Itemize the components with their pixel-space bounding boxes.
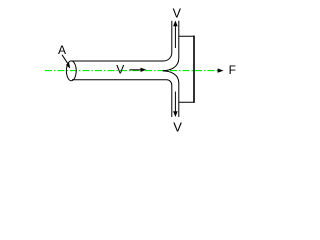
svg-text:V: V [173, 7, 182, 21]
wire F force arrowhead [218, 68, 224, 72]
centerline (green dash-dot axis) [45, 70, 218, 72]
svg-text:V: V [173, 119, 182, 134]
wire inner jet boundary lower branch [163, 71, 179, 117]
node flat plate [193, 36, 195, 103]
wire top connector to plate [179, 35, 195, 37]
wire A pointer arrow [62, 55, 68, 64]
svg-text:V: V [116, 63, 124, 77]
wire bottom connector to plate [179, 101, 195, 103]
wire nozzle bottom wall and lower outer jet wall [72, 80, 172, 117]
wire nozzle top wall and upper outer jet wall [71, 21, 172, 61]
svg-text:F: F [229, 63, 236, 77]
wire down jet velocity arrow [174, 92, 176, 113]
wire inner jet boundary upper branch [163, 21, 179, 71]
wire up jet velocity arrow [174, 26, 176, 49]
wire V velocity arrow [130, 69, 142, 71]
node nozzle exit ellipse (area A) [66, 61, 76, 81]
